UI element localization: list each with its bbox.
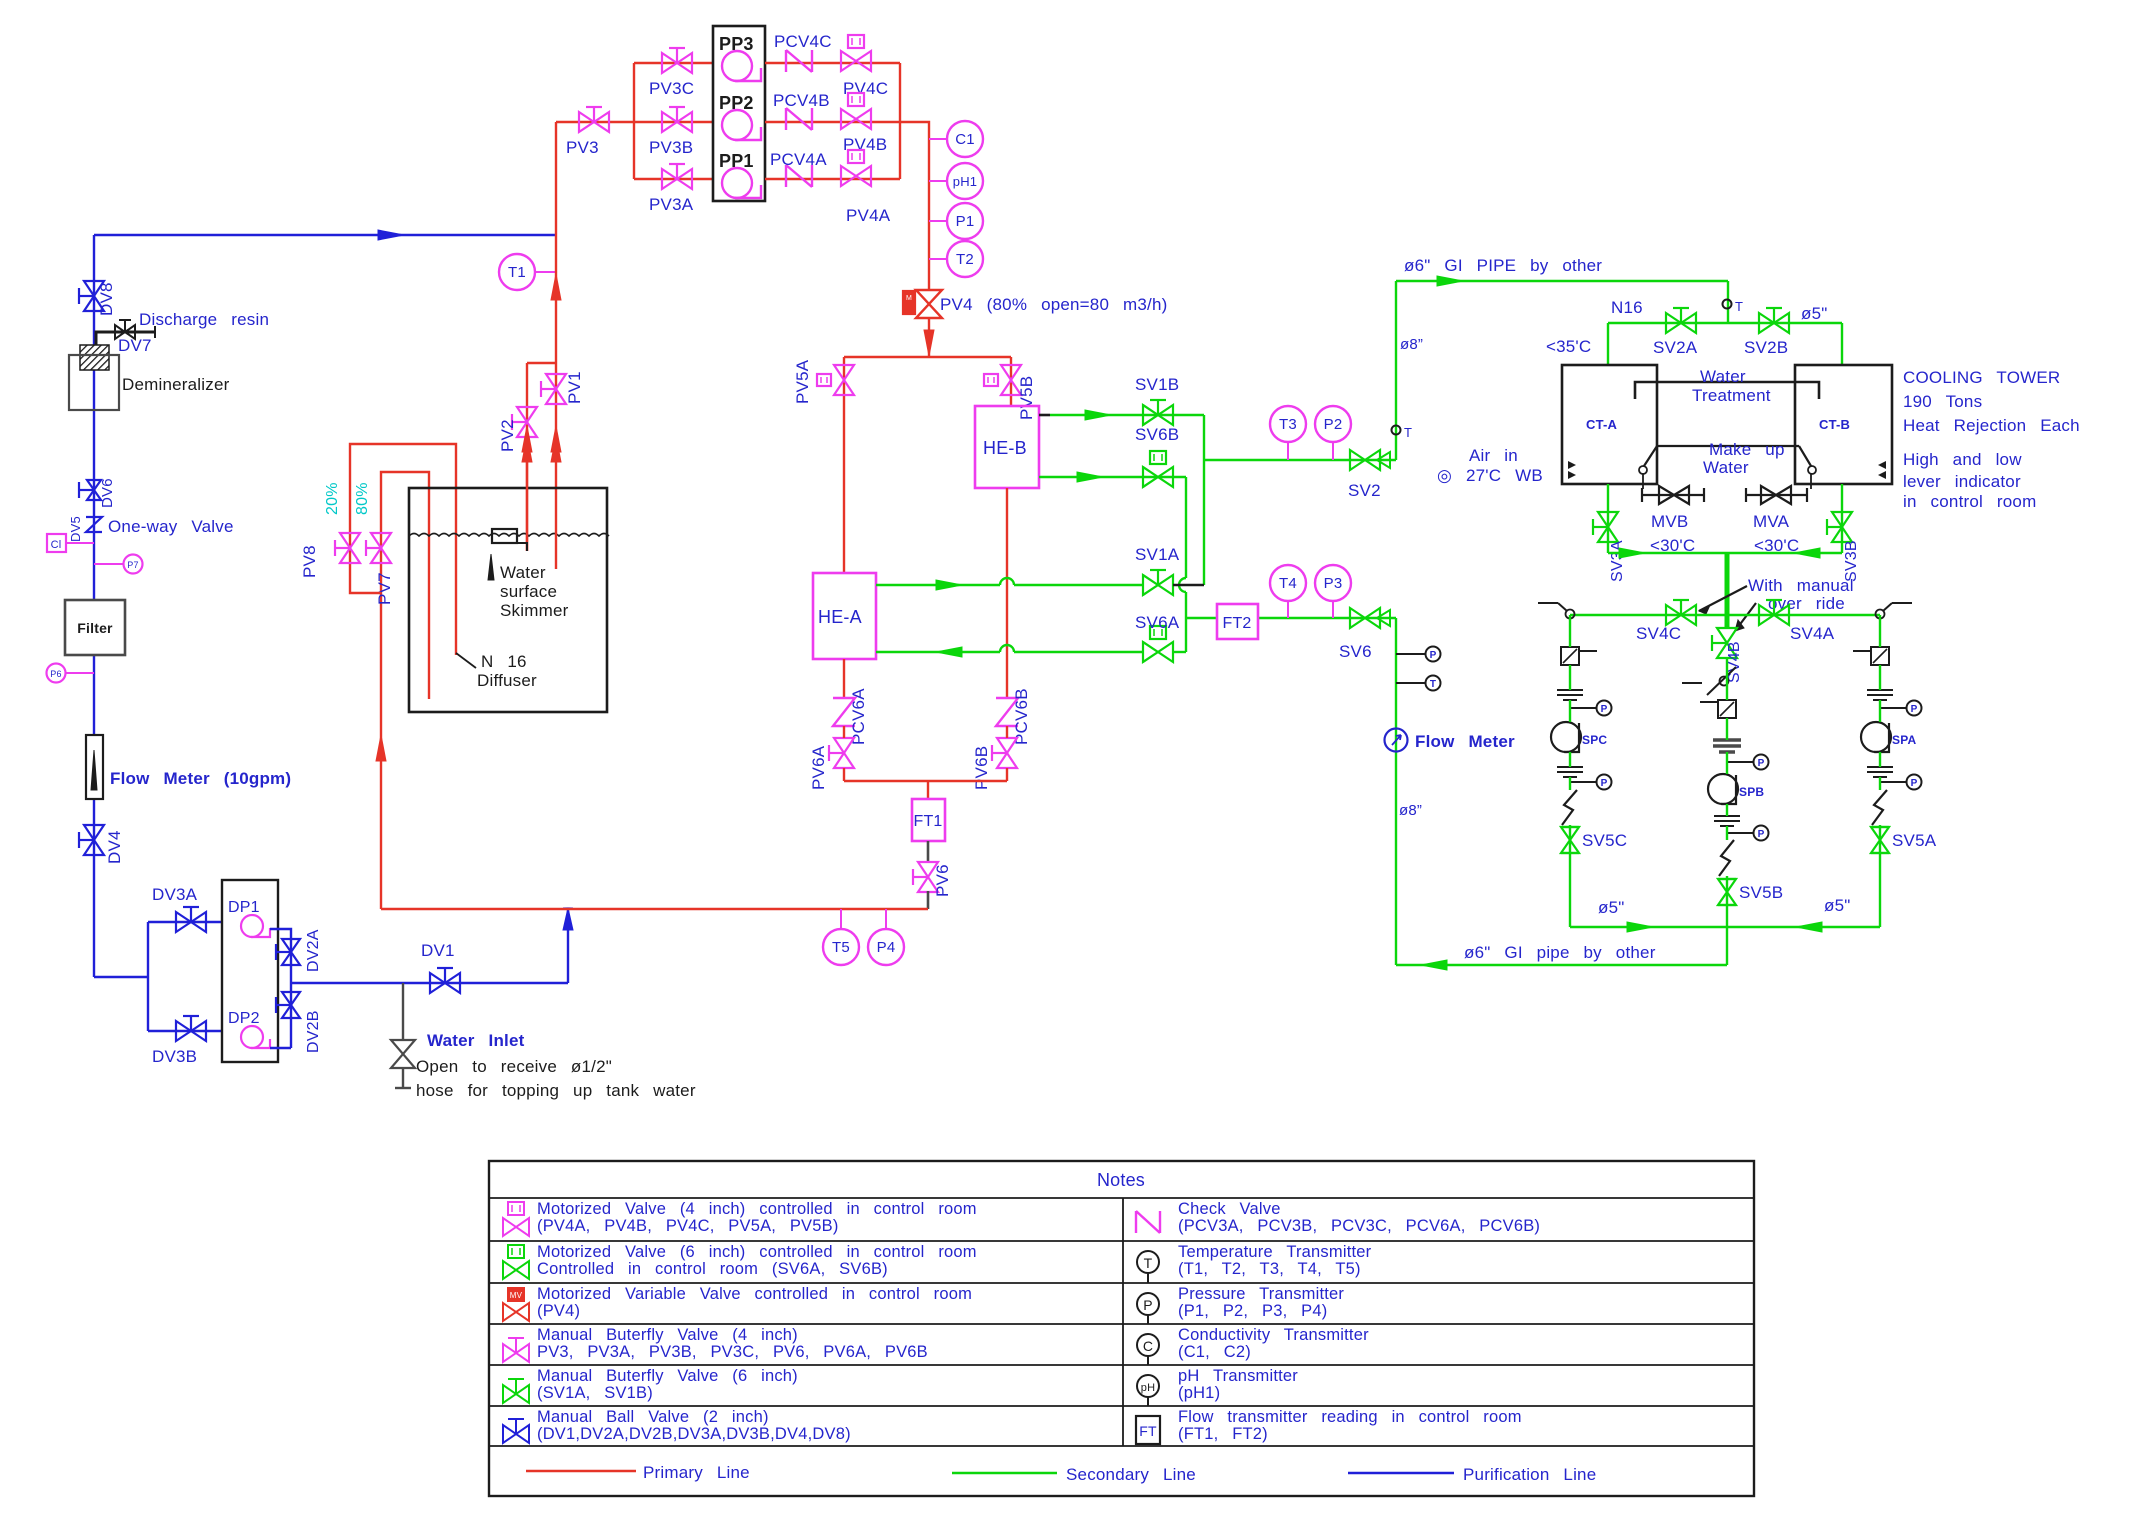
wire PP3 outlet [765,62,900,64]
wire cold well drop bold [1725,553,1730,629]
wire SV1A to corner [1173,584,1204,587]
svg-text:PCV4A: PCV4A [770,150,827,169]
svg-text:T2: T2 [956,251,974,268]
svg-text:Conductivity Transmitter: Conductivity Transmitter [1178,1326,1369,1344]
svg-text:P2: P2 [1324,416,1343,433]
svg-text:SV5B: SV5B [1739,883,1783,902]
svg-text:ø6" GI pipe by other: ø6" GI pipe by other [1464,943,1656,962]
flange SPC col upper [1557,689,1583,691]
svg-text:N 16: N 16 [481,652,527,671]
wire pump branch manifold [633,63,635,179]
svg-text:DV2A: DV2A [305,929,322,972]
wire red riser upper [555,122,557,363]
check valve PCV4B [786,108,812,130]
skimmer suction pipe [526,449,528,551]
svg-text:pH1: pH1 [953,174,977,189]
valve PV4C [841,51,871,71]
notes table frame [489,1161,1754,1496]
svg-text:P7: P7 [127,560,138,570]
valve SV6A [1143,642,1173,662]
valve DV1 [430,973,460,993]
svg-text:P: P [1601,704,1608,715]
valve PV8 [340,533,360,563]
legend manual ball valve [503,1425,529,1443]
svg-text:M: M [906,295,912,302]
valve PV4B [841,109,871,129]
valve PV4A [841,166,871,186]
limit switch SPB column [1682,682,1702,684]
svg-text:Filter: Filter [77,620,113,636]
pressure stub on return [1396,653,1426,655]
wire HE-A to SV6A [876,651,1143,653]
svg-text:20%: 20% [324,482,341,515]
spray pump SPC [1551,722,1581,752]
skimmer [492,529,517,543]
svg-text:MVB: MVB [1651,512,1688,531]
wire SPA col pipe [1879,615,1881,927]
svg-text:DV5: DV5 [68,516,83,542]
tank suction pipe [555,491,557,569]
svg-text:T5: T5 [832,939,850,956]
arrow to SV4C [1699,586,1747,611]
wire SPC col pipe [1569,615,1571,927]
svg-text:T1: T1 [508,264,526,281]
svg-text:lever indicator: lever indicator [1903,472,2021,491]
svg-text:High and low: High and low [1903,450,2022,469]
legend temperature transmitter [1137,1251,1159,1273]
svg-text:SPA: SPA [1892,733,1917,747]
svg-text:SV4A: SV4A [1790,624,1835,643]
cooling tower CT-B [1795,365,1892,484]
svg-text:DV3A: DV3A [152,885,198,904]
legend motorized valve 4inch [503,1218,529,1236]
wire PV7 line [381,472,429,699]
svg-text:T: T [1735,299,1743,314]
transmitter C1 [929,138,947,140]
svg-text:DV6: DV6 [99,478,116,508]
svg-text:(pH1): (pH1) [1178,1384,1220,1402]
transmitter P7 [94,563,123,565]
limit switch SPA col [1892,602,1912,604]
svg-text:C: C [1143,1338,1153,1354]
svg-text:SV4C: SV4C [1636,624,1681,643]
wire tank return riser [380,593,382,909]
valve SV5A [1871,827,1889,853]
wire FT1 stub [927,781,929,799]
valve PV1 [546,374,566,404]
svg-text:ø5": ø5" [1824,896,1850,915]
hollow arrow at SV2 junction [1377,452,1390,468]
svg-text:Secondary Line: Secondary Line [1066,1465,1196,1484]
wire branch PP3 [634,62,713,64]
svg-text:(FT1, FT2): (FT1, FT2) [1178,1425,1268,1443]
notes table column divider [1122,1198,1124,1446]
transmitter P6 [66,672,94,674]
wire PV4 down [928,318,930,357]
analyzer Cl [47,534,66,552]
valve DV2B [282,992,300,1018]
svg-text:SV2A: SV2A [1653,338,1698,357]
flange SPC col lower [1557,766,1583,768]
float valve circles [1639,466,1647,474]
svg-text:190 Tons: 190 Tons [1903,392,1982,411]
svg-text:T: T [1404,425,1412,440]
svg-text:PV2: PV2 [498,419,517,452]
svg-text:T4: T4 [1279,575,1297,592]
svg-text:P1: P1 [956,213,975,230]
svg-text:T: T [1144,1255,1153,1271]
valve SV3A [1598,512,1618,542]
wire blue to pumps [94,922,148,1031]
valve SV6 [1350,608,1380,628]
svg-text:ø6" GI PIPE by other: ø6" GI PIPE by other [1404,256,1602,275]
wire to PV4 riser [900,122,929,290]
svg-text:Cl: Cl [51,539,62,551]
svg-text:PV3: PV3 [566,138,599,157]
wire GI pipe top [1396,280,1728,282]
svg-text:PV3A: PV3A [649,195,694,214]
wire PV6 manifold [843,768,845,781]
pump DP2 [241,1026,263,1048]
wire secondary supply line T3 P2 [1204,459,1396,461]
svg-text:ø5": ø5" [1598,898,1624,917]
svg-text:SV1A: SV1A [1135,545,1180,564]
wire SV5 manifold [1570,926,1880,928]
svg-text:Flow transmitter reading in co: Flow transmitter reading in control room [1178,1408,1522,1426]
valve SV3B [1832,512,1852,542]
valve PV2 [517,407,537,437]
pressure gauge SPB upper [1727,761,1753,763]
cooling tower CT-A [1562,365,1657,484]
transmitter P3 [1332,600,1334,618]
flex connector SPA col [1872,790,1887,825]
wire SPB pipe [1726,657,1728,965]
svg-text:Skimmer: Skimmer [500,601,569,620]
flow arrows tank suction [522,426,532,452]
svg-text:PV5B: PV5B [1017,376,1036,420]
svg-text:SV2: SV2 [1348,481,1381,500]
hollow arrow at SV6 corner [1377,610,1390,626]
svg-text:PV7: PV7 [375,572,394,605]
check valve PCV4C [786,50,812,72]
transmitter T3 [1287,442,1289,460]
valve SV1B [1143,405,1173,425]
wire SV6A to corner [1173,651,1186,653]
svg-text:(SV1A, SV1B): (SV1A, SV1B) [537,1384,653,1402]
svg-text:PV4C: PV4C [843,79,888,98]
svg-text:pH Transmitter: pH Transmitter [1178,1367,1298,1385]
valve PV3A [662,169,692,189]
flex connector SPB [1719,840,1734,876]
tank water surface [409,534,609,537]
svg-text:P: P [1911,778,1918,789]
one-way valve DV5 [86,517,102,532]
svg-text:P: P [1758,758,1765,769]
wire CT-A outlet [1607,484,1609,553]
wire branch PP1 [634,178,713,180]
svg-text:PV4 (80% open=80 m3/h): PV4 (80% open=80 m3/h) [940,295,1168,314]
wire red top line [556,121,634,123]
svg-text:P: P [1758,829,1765,840]
svg-text:Purification Line: Purification Line [1463,1465,1596,1484]
wire SV6B vertical [1185,477,1187,652]
svg-text:SV5A: SV5A [1892,831,1937,850]
valve MVA [1746,494,1807,496]
valve PV3 [579,112,609,132]
svg-text:ø8”: ø8” [1400,336,1423,353]
valve DV7 [115,325,135,339]
valve PV6B [997,738,1017,768]
label water surface skimmer [488,554,494,580]
legend flow transmitter [1136,1416,1160,1444]
wire HE split header [844,356,1011,358]
svg-text:Air in: Air in [1469,446,1518,465]
transmitter pH1 [929,180,947,182]
valve SV2A [1666,313,1696,333]
wire red bottom return line [381,908,928,910]
svg-text:pH: pH [1141,1382,1155,1394]
wire tower header [1608,322,1842,324]
valve PV3B [662,112,692,132]
svg-text:SV3A: SV3A [1609,540,1626,582]
valve DV8 [84,281,104,311]
heat exchanger HE-B [975,406,1039,488]
svg-text:Check Valve: Check Valve [1178,1200,1281,1218]
svg-text:DV1: DV1 [421,941,455,960]
flow transmitter FT2 [1217,604,1258,639]
pressure gauge SPA col upper [1880,707,1906,709]
svg-text:P4: P4 [877,939,896,956]
wire blue return up to red line [567,908,569,983]
water treatment line [1635,382,1819,399]
svg-text:HE-B: HE-B [983,438,1027,458]
valve SV4B [1717,628,1737,658]
pressure gauge SPC col upper [1570,707,1596,709]
pump DP1 [241,915,263,937]
solenoid box SPC col [1561,647,1579,665]
svg-text:PV3, PV3A, PV3B, PV3C, PV6, PV: PV3, PV3A, PV3B, PV3C, PV6, PV6A, PV6B [537,1343,928,1361]
wire PV5B drop [1010,357,1012,406]
discharge resin pipe [96,332,155,345]
legend manual butterfly 6inch [503,1385,529,1403]
svg-text:Flow Meter (10gpm): Flow Meter (10gpm) [110,769,291,788]
svg-text:FT: FT [1139,1423,1157,1439]
water inlet stub [402,983,404,1040]
wire CT-B feed [1841,323,1843,365]
transmitter P2 [1332,442,1334,460]
svg-text:COOLING TOWER: COOLING TOWER [1903,368,2060,387]
svg-text:HE-A: HE-A [818,607,862,627]
svg-text:hose for topping up tank water: hose for topping up tank water [416,1081,696,1100]
legend primary line [526,1470,636,1473]
svg-text:Pressure Transmitter: Pressure Transmitter [1178,1285,1344,1303]
svg-text:◎ 27'C WB: ◎ 27'C WB [1437,466,1543,485]
wire blue purification top line [94,234,556,236]
transmitter P4 [885,909,887,928]
svg-text:Manual Buterfly Valve (6 inch): Manual Buterfly Valve (6 inch) [537,1367,798,1385]
svg-text:Motorized Variable Valve contr: Motorized Variable Valve controlled in c… [537,1285,972,1303]
svg-text:FT1: FT1 [913,813,942,830]
arrow to SV4B [1735,603,1756,631]
svg-text:MVA: MVA [1753,512,1790,531]
wire branch PP2 [634,121,713,123]
svg-text:PV3C: PV3C [649,79,694,98]
svg-text:Motorized Valve (4 inch) contr: Motorized Valve (4 inch) controlled in c… [537,1200,977,1218]
svg-text:PV5A: PV5A [793,359,812,404]
svg-text:PV4A: PV4A [846,206,891,225]
valve PV6 [918,862,938,892]
valve PV6A [834,738,854,768]
legend manual butterfly 4inch [503,1344,529,1362]
svg-text:CT-B: CT-B [1819,417,1850,432]
wire DV3B branch [148,1030,222,1032]
svg-text:Water: Water [500,563,546,582]
legend conductivity transmitter [1137,1334,1159,1356]
svg-text:SV2B: SV2B [1744,338,1788,357]
wire DV3A branch [148,921,222,923]
svg-text:Diffuser: Diffuser [477,671,537,690]
valve SV5C [1561,827,1579,853]
legend purification line [1348,1472,1454,1475]
svg-text:T3: T3 [1279,416,1297,433]
svg-text:SV1B: SV1B [1135,375,1179,394]
wire SV1B vertical [1203,415,1205,585]
svg-text:DV4: DV4 [105,830,124,864]
solenoid box SPA col [1871,647,1889,665]
valve MVB [1642,494,1704,496]
svg-text:Make up: Make up [1709,440,1785,459]
svg-text:Motorized Valve (6 inch) contr: Motorized Valve (6 inch) controlled in c… [537,1243,977,1261]
wire green riser upper [1395,281,1397,460]
svg-text:(PV4): (PV4) [537,1302,580,1320]
svg-text:(DV1,DV2A,DV2B,DV3A,DV3B,DV4,D: (DV1,DV2A,DV2B,DV3A,DV3B,DV4,DV8) [537,1425,851,1443]
svg-text:P: P [1430,650,1437,661]
svg-text:DV3B: DV3B [152,1047,197,1066]
sensor T at tower header [1723,300,1732,309]
wire HE-A to SV1A [876,584,1143,586]
valve SV4C [1666,605,1696,625]
check valve PCV4A [786,165,812,187]
wire green bottom return [1396,964,1727,966]
svg-text:PCV4C: PCV4C [774,32,832,51]
svg-text:PCV6B: PCV6B [1012,688,1031,745]
svg-text:in control room: in control room [1903,492,2036,511]
valve DV3A [176,912,206,932]
legend motorized variable valve [503,1303,529,1321]
wire CT-A feed [1607,323,1609,365]
transmitter T5 [840,909,842,928]
svg-text:Manual Buterfly Valve (4 inch): Manual Buterfly Valve (4 inch) [537,1326,798,1344]
wire FT1 to PV6 [927,841,930,863]
svg-text:Flow Meter: Flow Meter [1415,732,1515,751]
svg-text:Notes: Notes [1097,1170,1145,1190]
valve SV5B [1718,879,1736,905]
water inlet valve [391,1040,415,1068]
svg-text:SV5C: SV5C [1582,831,1627,850]
valve DV4 [84,825,104,855]
svg-text:Demineralizer: Demineralizer [122,375,230,394]
transmitter T4 [1287,600,1289,618]
svg-text:P: P [1911,704,1918,715]
valve PV4 motorized variable [916,290,942,318]
svg-text:Open to receive ø1/2": Open to receive ø1/2" [416,1057,612,1076]
solenoid box SPB [1718,700,1736,718]
wire HE-A bottom drop [843,659,845,697]
svg-text:PV1: PV1 [565,371,584,404]
temperature stub on return [1396,682,1426,684]
svg-text:Primary Line: Primary Line [643,1463,750,1482]
svg-text:80%: 80% [354,482,371,515]
flow meter on return [1385,729,1408,752]
svg-text:SPB: SPB [1739,785,1764,799]
svg-text:PV3B: PV3B [649,138,693,157]
flange SPB lower [1714,815,1740,817]
legend check valve [1136,1211,1160,1233]
valve DV3B [176,1021,206,1041]
svg-text:PCV6A: PCV6A [849,688,868,745]
legend secondary line [952,1472,1057,1475]
wire PP2 outlet [765,121,900,123]
flow arrow purification [378,230,404,240]
wire tower supply drop [1727,281,1729,323]
legend motorized valve 6inch [503,1261,529,1279]
label cooling tower specs [1903,368,2080,511]
svg-text:SV6: SV6 [1339,642,1372,661]
svg-text:(PCV3A, PCV3B, PCV3C, PCV6A, P: (PCV3A, PCV3B, PCV3C, PCV6A, PCV6B) [1178,1217,1540,1235]
svg-text:surface: surface [500,582,557,601]
svg-text:(T1, T2, T3, T4, T5): (T1, T2, T3, T4, T5) [1178,1260,1361,1278]
spray pump SPA [1861,722,1891,752]
valve SV4A [1759,605,1789,625]
check valve PCV6A [833,698,855,726]
valve SV1A [1143,575,1173,595]
svg-text:With manual: With manual [1748,576,1854,595]
svg-text:SV6B: SV6B [1135,425,1179,444]
wire CT-B outlet [1841,484,1843,553]
svg-text:Discharge resin: Discharge resin [139,310,269,329]
valve DV6 [87,480,101,500]
check valve PCV6B [996,698,1018,726]
valve SV2 [1350,450,1380,470]
wire PV6 to bottom line [927,891,930,909]
flange SPA col upper [1867,689,1893,691]
svg-text:PV8: PV8 [300,545,319,578]
valve PV5A [834,365,854,395]
wire blue main to DV1 [291,982,568,984]
wire green return riser [1395,618,1397,965]
flex connector SPC col [1562,790,1577,825]
valve PV3C [662,53,692,73]
wire HE-B bottom drop [1006,488,1008,697]
wire DP outlet [270,929,291,1048]
svg-text:PV4B: PV4B [843,135,887,154]
legend pressure transmitter [1137,1293,1159,1315]
svg-text:C1: C1 [955,131,975,148]
spray pump SPB [1708,774,1738,804]
wire PV5A drop [843,357,845,573]
flange SPA col lower [1867,766,1893,768]
svg-text:Heat Rejection Each: Heat Rejection Each [1903,416,2080,435]
svg-text:One-way Valve: One-way Valve [108,517,234,536]
pressure gauge SPB lower [1727,832,1753,834]
valve PV7 [371,533,391,563]
wire red riser from tank [555,363,557,491]
wire HE-B to SV1B [1039,414,1050,417]
svg-text:MV: MV [510,1291,523,1300]
flow meter 10gpm body [86,735,103,799]
pressure gauge SPC col lower [1570,781,1596,783]
svg-text:Water: Water [1703,458,1749,477]
